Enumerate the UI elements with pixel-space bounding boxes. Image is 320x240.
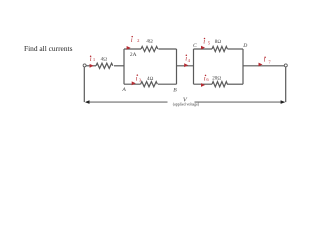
svg-text:5: 5 [208, 40, 211, 45]
svg-text:D: D [242, 43, 247, 49]
svg-text:B: B [173, 87, 177, 93]
svg-text:4Ω: 4Ω [146, 39, 153, 45]
svg-text:(applied voltage): (applied voltage) [173, 102, 200, 106]
svg-text:Find all currents: Find all currents [24, 44, 73, 53]
svg-text:20Ω: 20Ω [212, 76, 221, 82]
svg-text:4: 4 [188, 58, 191, 63]
svg-text:7: 7 [268, 59, 271, 64]
svg-text:8Ω: 8Ω [215, 39, 222, 45]
svg-text:4Ω: 4Ω [147, 76, 154, 82]
svg-text:1: 1 [93, 57, 96, 62]
svg-text:2: 2 [137, 38, 140, 43]
svg-text:2A: 2A [130, 52, 137, 58]
svg-text:6: 6 [206, 77, 209, 82]
svg-text:4Ω: 4Ω [101, 57, 108, 63]
svg-text:A: A [121, 87, 126, 93]
svg-text:C: C [193, 43, 197, 49]
